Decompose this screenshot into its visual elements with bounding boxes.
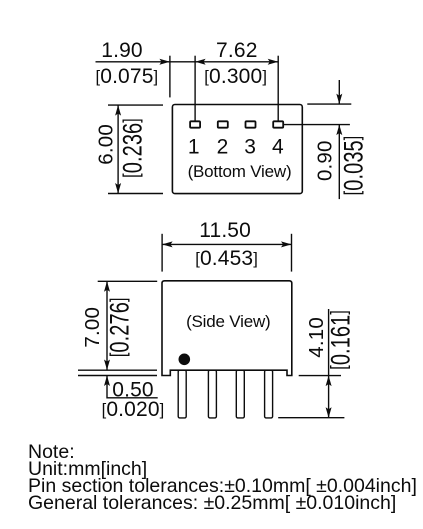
svg-text:7.00: 7.00 (81, 307, 104, 348)
arrow down 0.90 (336, 94, 342, 105)
extension line package bottom (6.00) (108, 193, 163, 195)
arrow right 11.50 (281, 241, 292, 247)
side view pin 2 (208, 370, 216, 418)
leader line from pin 4 pad (0.90) (283, 124, 350, 126)
svg-text:6.00: 6.00 (94, 124, 117, 165)
extension line from pin 4 (277, 56, 279, 122)
arrow up 0.90 (336, 125, 342, 136)
dimension line 6.00 (117, 105, 119, 193)
svg-text:3: 3 (244, 136, 256, 159)
leader line 0.50 (107, 376, 158, 398)
pin 3 pad (246, 121, 256, 127)
extension line pin tip (4.10) (278, 417, 344, 419)
svg-text:(Bottom View): (Bottom View) (188, 162, 292, 181)
arrow left at pin1 extension (195, 59, 206, 65)
extension line seating plane (4.10) (299, 375, 341, 377)
dimension line 0.90 lower (338, 125, 340, 200)
side view pin 4 (265, 370, 273, 418)
svg-text:General tolerances: ±0.25mm[ ±: General tolerances: ±0.25mm[ ±0.010inch] (28, 492, 396, 514)
dimension line 0.90 upper (338, 80, 340, 104)
svg-text:(Side View): (Side View) (186, 312, 270, 331)
svg-text:[0.020]: [0.020] (102, 398, 165, 421)
arrow down 7.00 (104, 360, 110, 371)
arrow right at pin4 extension (268, 59, 279, 65)
arrow right at package left edge (159, 59, 170, 65)
pin 1 pad (190, 121, 200, 127)
dimension line 7.00 (106, 281, 108, 370)
extension line package top (6.00) (108, 104, 163, 106)
svg-text:[0.300]: [0.300] (204, 65, 267, 88)
arrow up 7.00 (104, 281, 110, 292)
svg-text:1.90: 1.90 (101, 39, 142, 62)
svg-text:[0.276]: [0.276] (104, 297, 135, 357)
extension line at package left edge (169, 56, 171, 98)
svg-text:[0.035]: [0.035] (338, 136, 369, 196)
svg-text:7.62: 7.62 (216, 39, 257, 62)
dimension line 1.90 / 7.62 (96, 61, 279, 63)
arrow left 11.50 (162, 241, 173, 247)
svg-text:11.50: 11.50 (199, 219, 251, 242)
svg-text:[0.453]: [0.453] (195, 247, 258, 270)
extension line standoff bottom (0.50) (78, 375, 157, 377)
side view pin 1 (178, 370, 186, 418)
extension line side view right (11.50) (291, 234, 293, 272)
extension line side view top (7.00) (98, 280, 158, 282)
arrow up 4.10 (326, 376, 332, 387)
svg-text:1: 1 (188, 136, 200, 159)
dimension line 11.50 (162, 243, 291, 245)
extension line from pin 1 (194, 56, 196, 122)
pin 1 indicator dot (179, 354, 191, 366)
side view package outline (162, 281, 292, 376)
svg-text:[0.236]: [0.236] (117, 118, 148, 178)
arrow up 6.00 (115, 105, 121, 116)
svg-text:2: 2 (217, 136, 229, 159)
arrow down 4.10 (326, 407, 332, 418)
bottom view package outline (172, 105, 302, 194)
svg-text:0.90: 0.90 (314, 140, 337, 181)
extension line package top right (0.90) (307, 103, 351, 105)
pin 4 pad (273, 121, 283, 127)
arrow up 0.50 (104, 376, 110, 387)
dimension line 4.10 (328, 309, 330, 418)
extension line side view left (11.50) (161, 234, 163, 272)
svg-text:4: 4 (272, 136, 284, 159)
side view pin 3 (236, 370, 244, 418)
arrow down 6.00 (115, 183, 121, 194)
pin 2 pad (218, 121, 228, 127)
svg-text:[0.161]: [0.161] (325, 310, 356, 370)
extension line package bottom (0.50) (78, 369, 157, 371)
svg-text:[0.075]: [0.075] (96, 65, 159, 88)
